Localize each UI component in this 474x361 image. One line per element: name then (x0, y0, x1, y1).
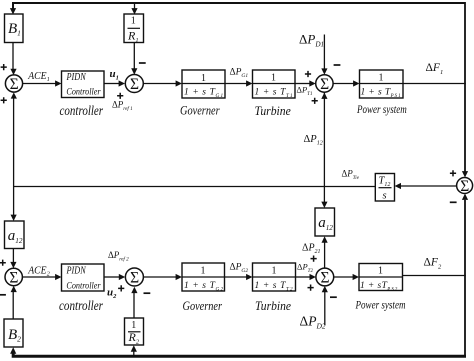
svg-text:Σ: Σ (130, 270, 139, 287)
svg-text:Turbine: Turbine (255, 298, 291, 313)
svg-text:PIDN: PIDN (66, 266, 87, 277)
svg-text:1: 1 (201, 73, 206, 84)
svg-text:controller: controller (59, 298, 104, 313)
svg-text:Controller: Controller (66, 86, 100, 97)
svg-text:Governer: Governer (180, 102, 220, 117)
svg-text:controller: controller (60, 103, 104, 118)
svg-text:Σ: Σ (9, 270, 18, 287)
svg-text:ACE: ACE (27, 266, 46, 277)
svg-text:PIDN: PIDN (66, 72, 87, 83)
svg-text:Power system: Power system (355, 298, 406, 312)
svg-text:1: 1 (201, 266, 206, 277)
svg-text:ACE: ACE (27, 71, 46, 82)
svg-text:s: s (383, 191, 387, 202)
svg-text:Σ: Σ (10, 76, 19, 93)
svg-text:Governer: Governer (183, 298, 223, 313)
svg-text:Σ: Σ (320, 270, 329, 287)
svg-text:1: 1 (47, 77, 50, 83)
svg-text:1: 1 (378, 266, 383, 277)
svg-text:Σ: Σ (460, 178, 469, 195)
svg-text:1: 1 (131, 16, 136, 27)
svg-text:Σ: Σ (130, 76, 139, 93)
svg-text:Turbine: Turbine (255, 103, 291, 118)
svg-text:Power system: Power system (356, 102, 407, 116)
svg-text:1: 1 (272, 266, 277, 277)
svg-text:Controller: Controller (66, 281, 100, 292)
svg-text:2: 2 (47, 272, 50, 278)
svg-text:1: 1 (271, 73, 276, 84)
svg-text:Σ: Σ (320, 76, 329, 93)
svg-text:1: 1 (379, 73, 384, 84)
